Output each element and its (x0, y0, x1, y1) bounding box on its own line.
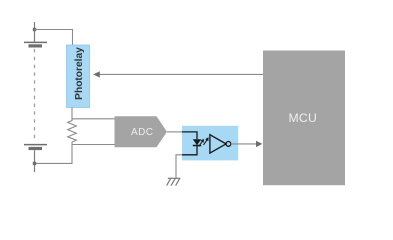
wire Photorelay bottom to resistor (71, 108, 73, 121)
wire battery+ to Photorelay top (35, 30, 73, 46)
Photorelay U1 box (67, 45, 90, 108)
wire MCU to Photorelay (control) (100, 73, 264, 75)
junction top (battery + to photorelay wire) (33, 28, 36, 31)
svg-text:MCU: MCU (288, 111, 317, 125)
digital isolator U3 box (182, 126, 238, 161)
battery cell BT2 (bottom) (24, 145, 47, 172)
light emission arrows (197, 136, 210, 147)
wire ADC output to isolator LED (167, 131, 183, 133)
inverter/buffer gate U3b (210, 135, 231, 153)
wire isolator output to MCU (231, 143, 257, 145)
battery cell BT1 (top) (24, 22, 47, 46)
svg-text:ADC: ADC (131, 127, 153, 138)
ADC U2 block (115, 116, 168, 147)
wire resistor bottom node to ADC (72, 144, 115, 146)
arrowhead into Photorelay (93, 71, 100, 77)
svg-text:Photorelay: Photorelay (74, 47, 85, 100)
resistor R1 (68, 121, 77, 143)
LED D1 (isolator input) (182, 132, 201, 155)
ground (chassis) (167, 178, 181, 185)
wire isolator to ground (176, 155, 182, 179)
wire resistor bottom to battery- rail (35, 142, 73, 163)
battery stack dashed wire (34, 49, 36, 141)
arrowhead into MCU (256, 141, 262, 147)
MCU block (263, 51, 345, 186)
wire resistor top node to ADC (72, 118, 115, 120)
junction bottom (battery - to rail) (33, 162, 36, 165)
